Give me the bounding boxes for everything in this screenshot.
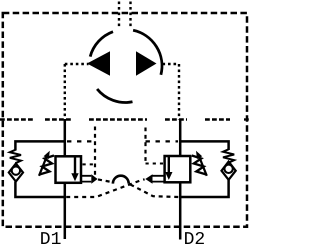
drain line stub left (dashed) [118, 2, 120, 30]
check valve CV1 spring [10, 150, 21, 163]
left bypass loop wire [15, 141, 64, 197]
check valve CV2 ball [224, 165, 232, 173]
svg-text:D1: D1 [40, 230, 62, 250]
check valve CV1 diamond [9, 164, 23, 182]
check valve CV2 spring [223, 149, 234, 162]
main line D1 [64, 120, 67, 240]
V2 pilot port arrow [153, 176, 165, 182]
V1 adjustable spring [40, 156, 55, 175]
pilot line X1 (left pilot to D2 tap, dashed) [98, 179, 111, 181]
drain line stub right (dashed) [129, 2, 131, 30]
enclosure dashed border (valve body) [3, 13, 247, 227]
main line D2 [179, 120, 182, 240]
V1 pilot port arrow [81, 176, 91, 182]
motor M1 left triangle [87, 51, 110, 75]
V1 pilot passage (dashed) [67, 140, 95, 142]
motor port line B (dashed) [163, 63, 180, 65]
check valve CV1 ball [12, 166, 20, 174]
motor M1 circle [90, 30, 162, 102]
V2 flow arrow [168, 156, 170, 173]
motor M1 right triangle [136, 51, 157, 75]
pilot line crossing hop [113, 176, 129, 184]
motor port line A (dashed) [65, 63, 89, 65]
counterbalance valve V1 body [56, 156, 82, 183]
V2 pilot passage (dashed) [146, 140, 179, 142]
V1 flow arrow [74, 156, 76, 174]
pilot line X2 (right pilot to D1 tap, dashed) [66, 179, 144, 197]
right bypass loop wire [180, 141, 228, 197]
check valve CV2 diamond [222, 162, 236, 180]
manifold interface line (dashed) [0, 118, 250, 120]
V2 adjustable spring [192, 156, 207, 175]
counterbalance valve V2 body [165, 156, 191, 182]
svg-text:D2: D2 [184, 230, 206, 250]
